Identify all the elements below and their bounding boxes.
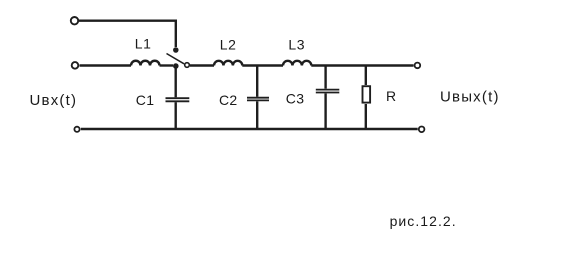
svg-text:рис.12.2.: рис.12.2. <box>390 213 457 229</box>
svg-text:C3: C3 <box>286 90 305 106</box>
svg-text:L1: L1 <box>135 36 152 52</box>
svg-text:R: R <box>386 88 396 104</box>
svg-text:C1: C1 <box>136 92 155 108</box>
svg-text:Uвх(t): Uвх(t) <box>30 92 78 109</box>
svg-text:C2: C2 <box>219 92 238 108</box>
svg-text:L2: L2 <box>220 37 237 53</box>
svg-text:L3: L3 <box>288 37 305 53</box>
svg-text:Uвых(t): Uвых(t) <box>440 88 500 105</box>
